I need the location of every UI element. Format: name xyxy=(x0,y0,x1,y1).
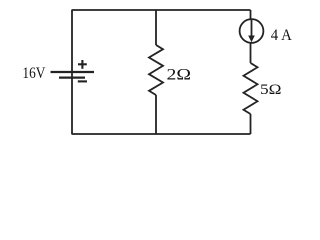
svg-text:5Ω: 5Ω xyxy=(260,82,282,98)
svg-text:2Ω: 2Ω xyxy=(167,64,192,83)
svg-text:4 A: 4 A xyxy=(271,27,292,44)
svg-text:16V: 16V xyxy=(22,65,45,82)
